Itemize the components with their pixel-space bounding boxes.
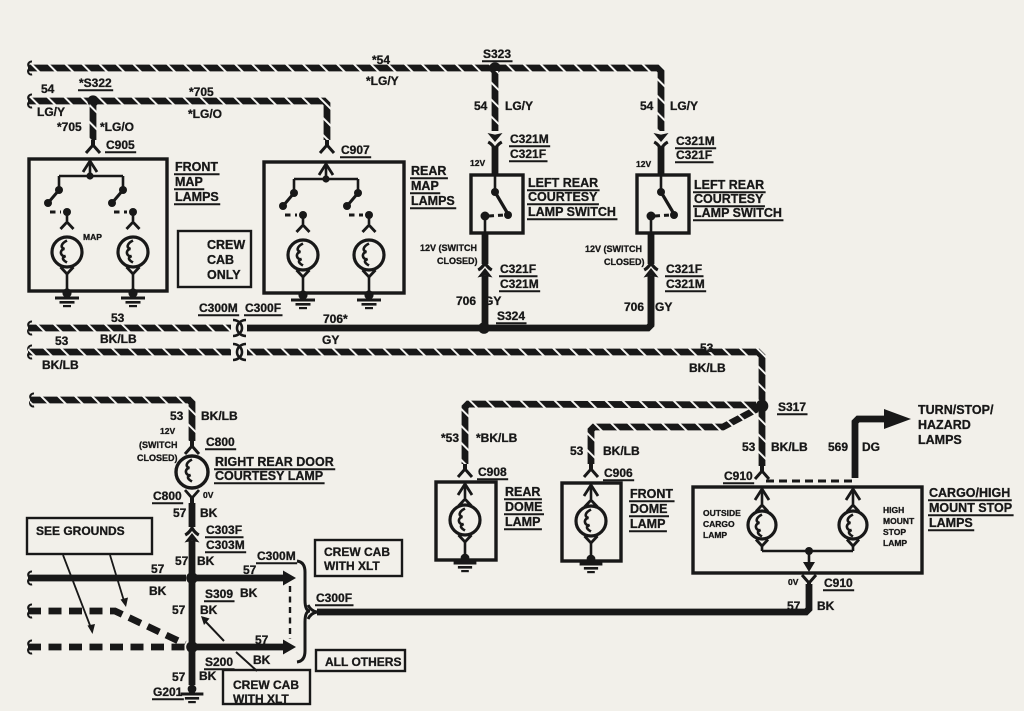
ground rear dome lamp [461,554,470,563]
svg-text:WITH XLT: WITH XLT [233,692,289,706]
svg-text:C321M: C321M [500,277,539,291]
wire S200 branch 57 BK with arrow [195,644,283,651]
svg-text:BK/LB: BK/LB [689,361,726,375]
splice S309 [186,572,198,584]
svg-text:C800: C800 [206,435,235,449]
svg-text:C800: C800 [153,489,182,503]
svg-text:BK: BK [197,554,215,568]
svg-text:54: 54 [41,82,55,96]
bus wire 53 BK/LB upper left segment [28,321,32,334]
svg-text:54: 54 [474,99,488,113]
svg-text:*705: *705 [57,120,82,134]
connector break on bus B [233,344,242,360]
switch S1 LEFT REAR COURTESY LAMP SWITCH (left) [471,175,523,233]
svg-text:LG/Y: LG/Y [37,105,65,119]
lamp high mount stop lamp [846,489,860,500]
wire *53 *BK/LB to C908 and S317 [465,404,756,464]
svg-text:S200: S200 [205,655,233,669]
svg-text:GY: GY [655,300,672,314]
dashed tie between branch arrows [289,586,291,639]
svg-text:C908: C908 [478,465,507,479]
svg-text:OUTSIDE: OUTSIDE [703,508,741,518]
svg-text:RIGHT REAR DOOR: RIGHT REAR DOOR [215,455,334,469]
bus wire 53 BK/LB to S317 [247,352,762,402]
svg-text:TURN/STOP/: TURN/STOP/ [918,403,994,417]
splice S324 [478,322,490,334]
bus wire 706* GY segment to S324 and right switch [247,276,651,328]
svg-text:12V: 12V [160,426,175,436]
svg-text:57: 57 [172,670,186,684]
svg-text:LAMP SWITCH: LAMP SWITCH [528,205,616,219]
svg-text:WITH XLT: WITH XLT [324,559,380,573]
wire 53 BK/LB to C906 and S317 [591,409,757,464]
svg-text:HAZARD: HAZARD [918,418,971,432]
ground feed wire dashed middle [28,604,32,617]
connector C905 [91,140,95,146]
connector C800 [190,441,194,447]
svg-text:BK/LB: BK/LB [201,409,238,423]
svg-text:C300F: C300F [245,301,281,315]
svg-text:C905: C905 [106,138,135,152]
pointer arrow S309 [205,621,224,641]
label box CREW CAB WITH XLT upper [315,540,402,576]
svg-text:S323: S323 [483,47,511,61]
svg-text:DG: DG [862,440,880,454]
connector C300F split [308,605,317,612]
connector C910 bottom [802,575,816,583]
connector C908 [463,464,467,470]
wire S322 to C905 *705 *LG/O [90,104,97,140]
svg-text:LAMP: LAMP [883,538,907,548]
svg-text:SEE GROUNDS: SEE GROUNDS [36,524,125,538]
arrow internal output [808,551,811,562]
svg-text:569: 569 [828,440,848,454]
svg-text:LG/Y: LG/Y [670,99,698,113]
svg-text:53: 53 [700,341,714,355]
svg-text:57: 57 [787,599,801,613]
svg-text:C910: C910 [724,469,753,483]
svg-text:FRONT: FRONT [175,160,218,174]
svg-text:57: 57 [175,554,189,568]
svg-text:C300M: C300M [257,549,296,563]
connector C303F/C303M [185,528,199,535]
label REAR MAP LAMPS [410,164,448,178]
svg-text:CLOSED): CLOSED) [604,257,645,267]
pointer arrow to ground wire 3 [63,555,91,628]
svg-text:57: 57 [243,563,257,577]
svg-text:C321F: C321F [510,147,546,161]
svg-text:GY: GY [322,333,339,347]
svg-text:BK: BK [200,603,218,617]
connector break C300M C300F on bus A [233,320,242,336]
label CARGO/HIGH MOUNT STOP LAMPS [928,486,1012,500]
svg-text:BK/LB: BK/LB [100,332,137,346]
connector C910 top [760,466,764,472]
svg-text:C300F: C300F [316,591,352,605]
svg-text:COURTESY LAMP: COURTESY LAMP [215,469,323,483]
connector C906 [589,464,593,470]
wire S317 to C910 53 BK/LB [759,409,766,466]
svg-text:BK: BK [200,506,218,520]
label RIGHT REAR DOOR COURTESY LAMP [214,455,335,469]
splice S317 [756,400,769,413]
connector C321F/C321M lower left [478,263,492,270]
svg-text:LAMPS: LAMPS [175,190,219,204]
wire 57 BK below door lamp [189,503,196,527]
splice *S322 [87,95,98,106]
svg-text:BK: BK [149,584,167,598]
label LEFT REAR COURTESY LAMP SWITCH (right) [693,178,766,192]
svg-text:HIGH: HIGH [883,505,904,515]
label box CREW CAB WITH XLT lower [223,670,310,704]
svg-text:C321M: C321M [510,132,549,146]
svg-text:(SWITCH: (SWITCH [139,440,178,450]
svg-text:C300M: C300M [199,301,238,315]
label FRONT DOME LAMP [629,487,675,501]
svg-text:S324: S324 [497,309,525,323]
svg-text:COURTESY: COURTESY [694,192,764,206]
svg-text:CARGO: CARGO [703,519,735,529]
svg-text:C321M: C321M [666,277,705,291]
wire 57 BK to splice S309 [189,541,196,578]
svg-text:FRONT: FRONT [630,487,673,501]
svg-text:BK/LB: BK/LB [603,444,640,458]
brace crew cab / all others [297,561,310,662]
svg-text:LAMPS: LAMPS [918,433,962,447]
svg-text:12V: 12V [470,158,485,168]
svg-text:C303F: C303F [206,523,242,537]
label LEFT REAR COURTESY LAMP SWITCH (left) [527,176,600,190]
label REAR DOME LAMP [504,485,542,499]
svg-text:LEFT REAR: LEFT REAR [528,176,598,190]
svg-text:706*: 706* [323,312,348,326]
wire left switch output 706 GY [482,233,489,264]
svg-text:*53: *53 [441,431,459,445]
svg-text:53: 53 [55,334,69,348]
svg-text:BK: BK [253,653,271,667]
svg-text:LEFT REAR: LEFT REAR [694,178,764,192]
svg-text:CREW: CREW [207,238,245,252]
connector C907 [325,140,329,146]
svg-text:*S322: *S322 [79,76,112,90]
wire C300M branch 57 BK with arrow [195,575,283,582]
svg-text:C321F: C321F [676,148,712,162]
svg-text:LAMP: LAMP [703,530,727,540]
svg-text:57: 57 [255,633,269,647]
svg-text:C321F: C321F [666,262,702,276]
wire 569 DG to turn/stop/hazard lamps [855,419,884,478]
svg-text:BK/LB: BK/LB [42,358,79,372]
svg-text:DOME: DOME [630,502,668,516]
svg-text:12V (SWITCH: 12V (SWITCH [585,244,642,254]
svg-text:BK: BK [240,586,258,600]
svg-text:C321M: C321M [676,134,715,148]
dashed connector line C910 [766,480,852,483]
svg-text:GY: GY [484,294,501,308]
component box FRONT DOME LAMP [562,483,621,561]
lamp RIGHT REAR DOOR COURTESY LAMP [176,456,208,488]
connector C321M/C321F left [488,133,503,142]
ground feed wire dashed lower [28,640,32,653]
svg-text:BK: BK [199,669,217,683]
label FRONT MAP LAMPS [174,160,220,174]
label box CREW CAB ONLY [178,231,251,287]
bus wire 53 BK/LB lower left segment [28,345,32,358]
svg-text:LG/Y: LG/Y [505,99,533,113]
svg-text:LAMP: LAMP [505,515,540,529]
splice S200 [186,641,198,653]
svg-text:0V: 0V [788,577,799,587]
svg-text:*LG/O: *LG/O [100,120,134,134]
ground G201 [152,685,184,699]
svg-text:57: 57 [151,562,165,576]
svg-text:COURTESY: COURTESY [528,190,598,204]
wire hot feed *54 LG/Y top bus [28,61,32,74]
svg-text:C321F: C321F [500,262,536,276]
svg-text:LAMP SWITCH: LAMP SWITCH [694,206,782,220]
wire S309 to S200 57 BK [189,581,196,644]
svg-text:MAP: MAP [83,232,102,242]
svg-text:C906: C906 [604,466,633,480]
svg-text:BK: BK [817,599,835,613]
pointer arrow to ground wire 2 [110,555,124,601]
svg-text:MAP: MAP [411,179,439,193]
svg-text:706: 706 [456,294,476,308]
svg-text:LAMP: LAMP [630,517,665,531]
label box ALL OTHERS [316,650,405,671]
svg-text:*LG/Y: *LG/Y [366,74,399,88]
wire C300F 57 BK to C910 [317,584,809,612]
svg-text:ALL OTHERS: ALL OTHERS [325,655,401,669]
wire internal lamp common [762,550,853,553]
svg-text:CARGO/HIGH: CARGO/HIGH [929,486,1010,500]
svg-text:MOUNT STOP: MOUNT STOP [929,501,1012,515]
svg-text:*54: *54 [372,53,390,67]
svg-text:C907: C907 [341,143,370,157]
label box SEE GROUNDS [27,518,152,554]
svg-text:CREW CAB: CREW CAB [233,678,299,692]
svg-text:G201: G201 [153,685,183,699]
svg-text:CLOSED): CLOSED) [137,453,178,463]
svg-text:MOUNT: MOUNT [883,516,915,526]
wire S200 to ground G201 57 BK [189,650,196,685]
ground front dome lamp [587,555,596,564]
svg-text:53: 53 [570,444,584,458]
svg-text:LAMPS: LAMPS [411,194,455,208]
component box REAR MAP LAMPS [264,162,404,293]
svg-text:54: 54 [640,99,654,113]
svg-text:53: 53 [742,440,756,454]
svg-text:S317: S317 [778,400,806,414]
pointer line S200 to crew cab box [236,652,257,671]
svg-text:ONLY: ONLY [207,268,241,282]
svg-text:*BK/LB: *BK/LB [476,431,518,445]
svg-text:DOME: DOME [505,500,543,514]
svg-text:CREW CAB: CREW CAB [324,545,390,559]
component box FRONT MAP LAMPS [29,159,167,291]
svg-text:C910: C910 [824,576,853,590]
svg-text:57: 57 [172,603,186,617]
svg-text:*LG/O: *LG/O [188,107,222,121]
svg-text:12V (SWITCH: 12V (SWITCH [420,243,477,253]
component box REAR DOME LAMP [436,482,496,560]
label C800 0V [152,489,183,503]
wire 53 BK/LB to right rear door lamp [30,393,34,406]
svg-text:C303M: C303M [206,538,245,552]
switch S2 LEFT REAR COURTESY LAMP SWITCH (right) [637,175,689,233]
splice S323 [489,62,501,74]
svg-text:12V: 12V [636,159,651,169]
component box CARGO/HIGH MOUNT STOP LAMPS [693,487,922,573]
connector C321F/C321M lower right [644,263,658,270]
svg-text:CLOSED): CLOSED) [437,256,478,266]
ground feed wire 57 BK solid [28,571,32,584]
svg-text:MAP: MAP [175,175,203,189]
lamp outside cargo lamp [755,489,769,500]
svg-text:BK/LB: BK/LB [771,440,808,454]
wire S323 to C321M left branch 54 LG/Y [492,71,499,131]
svg-text:REAR: REAR [505,485,540,499]
svg-text:STOP: STOP [883,527,906,537]
svg-text:CAB: CAB [207,253,234,267]
svg-text:S309: S309 [205,587,233,601]
svg-text:706: 706 [624,300,644,314]
svg-text:*705: *705 [189,85,214,99]
svg-text:REAR: REAR [411,164,446,178]
svg-text:53: 53 [111,311,125,325]
svg-text:LAMPS: LAMPS [929,516,973,530]
svg-text:0V: 0V [203,490,214,500]
svg-text:53: 53 [170,409,184,423]
wire right switch output 706 GY [648,233,655,264]
wire *705 *LG/O feed [28,94,32,107]
svg-text:57: 57 [173,506,187,520]
